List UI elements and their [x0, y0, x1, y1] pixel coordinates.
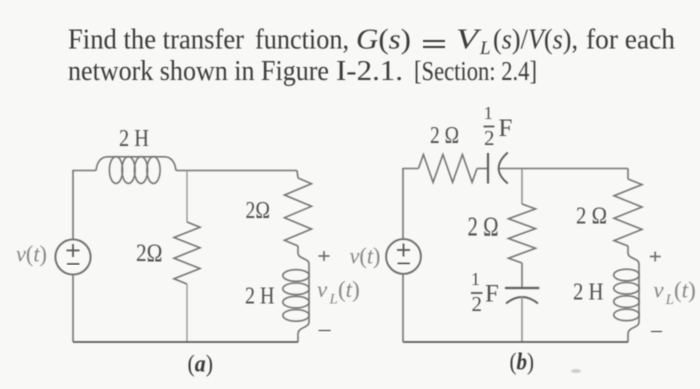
wire: (b) right corner down — [627, 169, 629, 180]
wire: (b) bottom — [403, 341, 628, 343]
wire: (a) middle branch top — [186, 171, 188, 223]
svg-text:2Ω: 2Ω — [136, 240, 163, 267]
wire: (b) capacitor to top-right corner — [500, 168, 629, 170]
svg-text:2 Ω: 2 Ω — [430, 123, 459, 149]
wire: (b) between R5 and L3 — [627, 246, 629, 253]
label minus (vL b) — [651, 331, 662, 333]
label v(t) source (b) — [350, 244, 381, 269]
wire: (b) middle branch bottom — [521, 296, 523, 342]
wire: (a) top from inductor to right corner — [176, 170, 297, 172]
label (b) caption — [510, 350, 535, 376]
voltage source V1 plus-minus (a) — [67, 244, 80, 264]
svg-text:V: V — [456, 25, 482, 56]
voltage source V2 plus-minus (b) — [397, 244, 410, 264]
svg-text:2: 2 — [471, 292, 482, 316]
inductor L3 2H loops — [614, 269, 640, 321]
capacitor C2 1/2F top plate — [505, 287, 539, 289]
inductor L2 2H spine (right of a) — [298, 253, 309, 342]
wire: (b) top-left from source up to resistor — [403, 169, 419, 240]
svg-text:I-2.1.: I-2.1. — [336, 56, 403, 87]
scan smudge — [571, 369, 581, 373]
svg-text:(s)/V(s),: (s)/V(s), — [493, 25, 578, 56]
svg-text:function,: function, — [255, 25, 349, 56]
wire: (b) middle branch top — [521, 169, 523, 205]
svg-text:v(t): v(t) — [350, 244, 381, 269]
svg-text:(b): (b) — [510, 350, 535, 376]
svg-text:(a): (a) — [188, 352, 214, 378]
label 2 ohm (middle of b) — [468, 212, 499, 242]
svg-text:network shown in Figure: network shown in Figure — [68, 56, 329, 87]
svg-text:L: L — [329, 292, 338, 308]
label 2 H (right inductor a) — [245, 284, 275, 310]
svg-text:v: v — [317, 277, 328, 302]
resistor R3 2 ohm (top of b) — [419, 155, 478, 183]
wire: (b) left below source — [402, 274, 404, 342]
svg-text:F: F — [485, 281, 499, 308]
inductor L3 2H spine (right of b) — [628, 253, 639, 342]
svg-text:2 H: 2 H — [245, 284, 275, 310]
svg-text:v: v — [653, 278, 664, 303]
inductor L2 2H loops — [283, 270, 309, 322]
svg-text:Find the transfer: Find the transfer — [68, 25, 245, 56]
svg-text:(t): (t) — [674, 278, 696, 303]
svg-text:2 H: 2 H — [573, 280, 604, 306]
wire: (a) right branch top corner — [297, 171, 298, 179]
svg-text:G(s): G(s) — [356, 25, 411, 56]
label minus (vL a) — [319, 330, 331, 332]
problem statement line 1 — [68, 25, 675, 60]
label plus (vL b) — [650, 252, 661, 262]
inductor L1 2H loops — [109, 157, 160, 184]
capacitor C1 1/2F right curved plate — [499, 153, 508, 184]
inductor L1 2H hump — [96, 157, 176, 171]
label 2 H (top inductor a) — [119, 126, 149, 152]
svg-text:2 H: 2 H — [119, 126, 149, 152]
svg-text:for each: for each — [586, 25, 675, 56]
svg-text:v(t): v(t) — [16, 242, 47, 267]
label 1/2 F (top of b) — [484, 103, 513, 150]
label vL(t) (b) — [653, 278, 695, 309]
resistor R1 2 ohm (middle of a) — [174, 222, 200, 284]
svg-text:2 Ω: 2 Ω — [576, 204, 607, 230]
label vL(t) (a) — [317, 277, 360, 308]
voltage source V1 circle (a) — [55, 239, 90, 274]
wire: (a) middle branch bottom — [186, 284, 188, 342]
capacitor C2 1/2F bottom curved plate — [506, 297, 538, 304]
label 2 ohm (right of a) — [246, 198, 271, 224]
capacitor C1 1/2F left plate — [487, 153, 489, 184]
label (a) caption — [188, 352, 214, 378]
problem statement line 2 — [68, 56, 537, 87]
resistor R2 2 ohm (right of a) — [285, 178, 312, 246]
svg-text:[Section: 2.4]: [Section: 2.4] — [414, 56, 537, 86]
svg-text:F: F — [499, 115, 513, 142]
label v(t) source (a) — [16, 242, 47, 267]
svg-text:1: 1 — [471, 269, 480, 289]
label 2 ohm (right of b) — [576, 204, 607, 230]
wire: (a) left below source — [72, 275, 74, 342]
svg-text:2Ω: 2Ω — [246, 198, 271, 224]
label 2 ohm (top of b) — [430, 123, 459, 149]
svg-text:2: 2 — [484, 126, 495, 150]
svg-text:L: L — [665, 292, 674, 308]
wire: (b) R4 to capacitor C2 — [521, 263, 523, 288]
svg-text:1: 1 — [484, 103, 493, 123]
label 1/2 F (middle of b) — [471, 269, 499, 316]
resistor R4 2 ohm (middle of b) — [509, 204, 536, 263]
wire: (b) resistor to capacitor plate — [477, 168, 488, 170]
svg-text:(t): (t) — [338, 277, 360, 302]
voltage source V2 circle (b) — [386, 239, 421, 274]
svg-text:2 Ω: 2 Ω — [468, 212, 499, 242]
label plus (vL a) — [319, 251, 330, 261]
wire: (a) bottom — [73, 341, 298, 343]
wire: (a) between R2 and L2 — [297, 246, 299, 253]
resistor R5 2 ohm (right of b) — [614, 179, 642, 246]
label 2 H (right inductor b) — [573, 280, 604, 306]
label 2 ohm (middle of a) — [136, 240, 163, 267]
wire: (a) top-left from source to inductor — [73, 171, 96, 240]
